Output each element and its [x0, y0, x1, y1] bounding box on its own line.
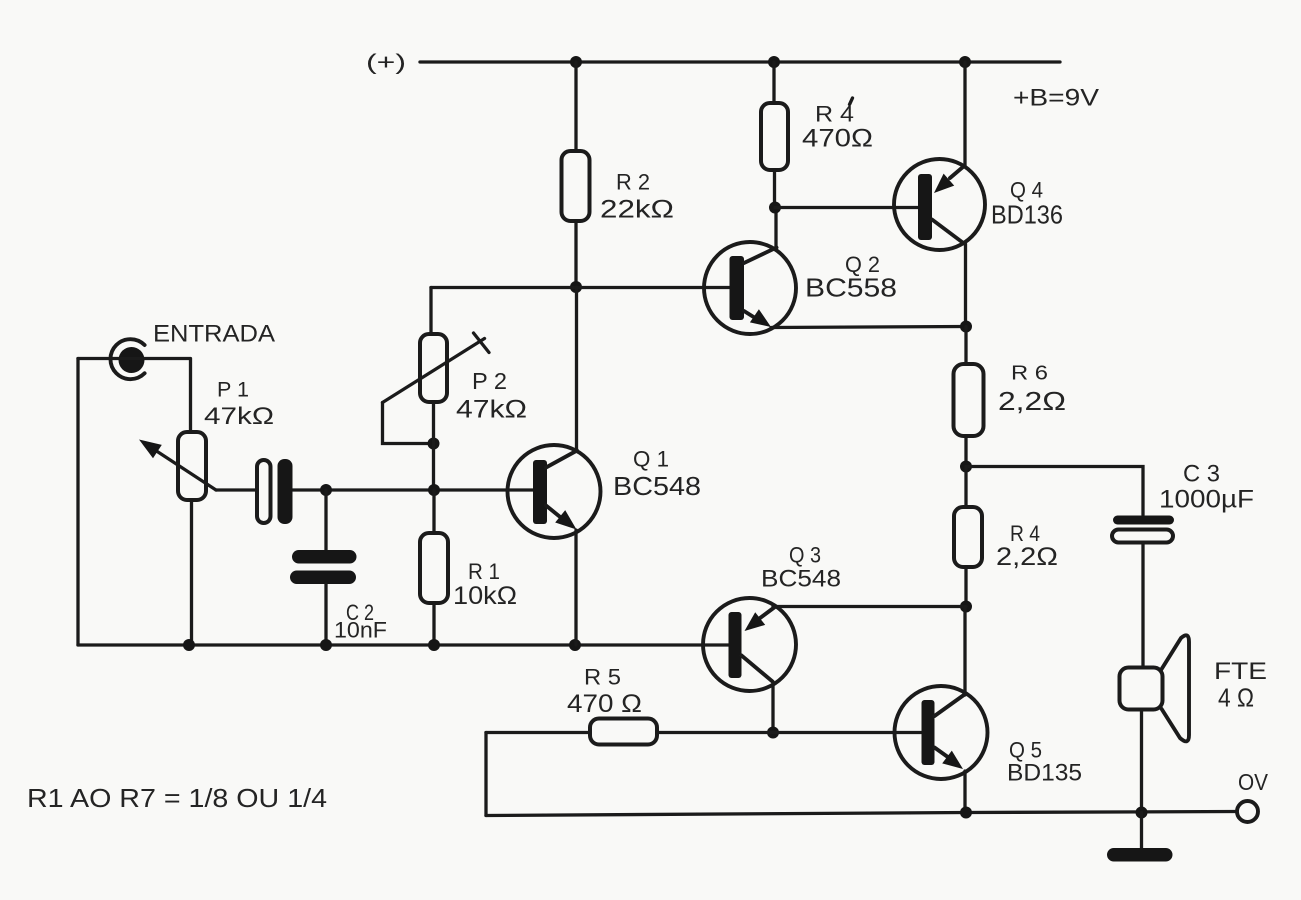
svg-text:10nF: 10nF — [334, 618, 387, 643]
wire P2 wiper return — [383, 403, 434, 444]
jack ENTRADA inner circle — [119, 347, 145, 373]
capacitor C1 right plate — [278, 459, 293, 524]
wire left vertical down — [76, 359, 79, 646]
wire Q4 collector down — [964, 244, 967, 327]
label P2 value — [456, 396, 527, 424]
potentiometer P1 body — [178, 432, 206, 500]
label R1 value — [453, 582, 517, 610]
wire Q1 collector vertical — [575, 287, 578, 451]
wire Q4 emitter to top rail — [963, 62, 966, 166]
label C3 ref — [1183, 461, 1220, 488]
resistor R5 — [590, 719, 657, 745]
capacitor C3 bottom plate — [1112, 530, 1173, 543]
label Q3 ref — [789, 543, 821, 568]
svg-text:(+): (+) — [366, 50, 406, 75]
node top rail / R2 — [570, 56, 582, 68]
wire top positive rail — [420, 60, 1060, 63]
svg-text:47kΩ: 47kΩ — [456, 396, 527, 424]
svg-text:22kΩ: 22kΩ — [600, 196, 674, 224]
label C3 value — [1159, 486, 1254, 514]
svg-text:P 1: P 1 — [217, 379, 249, 402]
svg-text:R 1: R 1 — [468, 559, 500, 584]
svg-text:BC558: BC558 — [805, 273, 897, 303]
wire R2 bottom lead to node — [574, 221, 577, 287]
label R1 ref — [468, 559, 500, 584]
node R2 / Q2 base wire / Q1 collector — [570, 281, 582, 293]
label (+) rail — [366, 50, 406, 75]
wire ground stub — [1140, 813, 1143, 849]
svg-text:4 Ω: 4 Ω — [1218, 683, 1254, 713]
resistor R4' — [761, 103, 788, 170]
label Q4 ref — [1010, 178, 1043, 203]
capacitor C2 bottom plate — [290, 571, 356, 585]
resistor R1 — [420, 533, 448, 603]
wire C3 to speaker — [1141, 543, 1144, 668]
wire corner down to P2 top — [429, 288, 432, 335]
wire Q2 base line — [431, 286, 731, 289]
label P1 value — [204, 403, 274, 430]
potentiometer P2 body — [420, 334, 447, 402]
wire P1 bottom lead — [190, 500, 193, 645]
label Q2 ref — [845, 252, 880, 277]
wire R4' bottom lead — [773, 170, 776, 208]
label FTE — [1214, 658, 1267, 685]
node P2 wiper / P2 bottom lead — [428, 438, 440, 450]
node top rail / Q4 emitter — [959, 56, 971, 68]
label Q2 type — [805, 273, 897, 303]
transistor Q5 — [895, 686, 988, 779]
node rail / R1 — [428, 639, 440, 651]
label P1 ref — [217, 379, 249, 402]
potentiometer P2 wiper diagonal — [383, 333, 490, 403]
potentiometer P1 wiper arrow — [139, 440, 216, 491]
svg-text:R 6: R 6 — [1011, 363, 1048, 385]
label ENTRADA — [153, 321, 275, 348]
svg-text:Q 1: Q 1 — [633, 447, 669, 472]
label +B=9V — [1013, 85, 1099, 112]
wire Q2 emitter line — [771, 327, 966, 328]
svg-text:470 Ω: 470 Ω — [567, 690, 642, 718]
node Q3 emitter / R5 wire — [767, 727, 779, 739]
svg-text:BC548: BC548 — [761, 566, 841, 593]
node R6 / R4 / C3 wire — [960, 461, 972, 473]
wire speaker bottom — [1140, 710, 1143, 813]
capacitor C1 left plate — [257, 460, 271, 523]
node Q2 emitter / R6 — [960, 321, 972, 333]
label P2 ref — [472, 368, 507, 394]
svg-text:1000µF: 1000µF — [1159, 486, 1254, 514]
svg-text:+B=9V: +B=9V — [1013, 85, 1099, 112]
svg-text:P 2: P 2 — [472, 368, 507, 394]
label R4' value — [802, 125, 873, 153]
transistor Q3 — [703, 598, 796, 691]
label R5 ref — [584, 665, 621, 690]
svg-text:470Ω: 470Ω — [802, 125, 873, 153]
node R4 / Q3 collector wire / Q5 collector — [960, 601, 972, 613]
label R4 ref — [1010, 521, 1040, 546]
wire node to C3 — [966, 467, 1143, 516]
transistor Q1 — [508, 445, 601, 645]
node rail / C2 — [320, 639, 332, 651]
label R4 value — [996, 543, 1058, 571]
node R4' / Q4 base / Q2 collector — [769, 202, 781, 214]
wire R1 bottom lead — [432, 603, 435, 645]
wire P2 bottom lead — [432, 402, 435, 490]
wire Q5 emitter to rail — [963, 771, 966, 813]
wire R5 left lead — [486, 731, 590, 734]
node signal / C2 — [320, 484, 332, 496]
wire R2 top lead — [574, 62, 577, 151]
wire R5 to Q5 base — [657, 731, 922, 734]
wire R6 bottom lead — [964, 436, 967, 467]
label Q1 ref — [633, 447, 669, 472]
label FTE value 4 ohm — [1218, 683, 1254, 713]
note R1 AO R7 — [27, 783, 327, 813]
label C2 ref — [346, 600, 374, 625]
svg-text:Q 3: Q 3 — [789, 543, 821, 568]
node rail / P1 — [183, 639, 195, 651]
node signal / R1 — [428, 484, 440, 496]
wire R4 bottom lead — [964, 567, 967, 607]
svg-text:OV: OV — [1238, 769, 1269, 795]
label R6 value — [998, 386, 1066, 416]
node rail / Q5 emitter — [960, 807, 972, 819]
wire mid ground rail — [78, 643, 729, 646]
label OV terminal — [1238, 769, 1269, 795]
speaker FTE cone — [1161, 635, 1189, 741]
node rail / Q1 emitter — [569, 639, 581, 651]
label Q5 type — [1007, 760, 1082, 787]
wire R6 top lead — [964, 327, 967, 365]
capacitor C2 top plate — [292, 550, 357, 564]
svg-text:10kΩ: 10kΩ — [453, 582, 517, 610]
node rail / speaker / ground — [1136, 807, 1148, 819]
wire left loop down — [484, 733, 487, 816]
label R6 ref — [1011, 363, 1048, 385]
label R5 value — [567, 690, 642, 718]
wire R1 top lead — [432, 490, 435, 533]
transistor Q4 — [894, 159, 985, 250]
label R2 value — [600, 196, 674, 224]
svg-text:2,2Ω: 2,2Ω — [998, 386, 1066, 416]
wire input signal line — [216, 488, 535, 491]
ground — [1107, 848, 1173, 862]
wire Q3 emitter down — [771, 682, 774, 733]
wire bottom 0V rail — [486, 812, 1237, 816]
wire Q2 collector to node — [774, 208, 777, 249]
svg-text:R 5: R 5 — [584, 665, 621, 690]
svg-text:R 2: R 2 — [616, 170, 650, 195]
svg-text:47kΩ: 47kΩ — [204, 403, 274, 430]
wire Q3 collector line — [773, 605, 966, 608]
label C2 value — [334, 618, 387, 643]
speaker FTE body — [1120, 668, 1163, 710]
terminal 0V — [1237, 801, 1258, 822]
jack ENTRADA outer ring — [110, 339, 144, 379]
wire R4 top lead — [964, 467, 967, 508]
label R4' ref — [815, 98, 854, 127]
wire Q4 base line — [775, 206, 919, 209]
wire jack to P1 top — [189, 359, 192, 433]
label Q3 type — [761, 566, 841, 593]
svg-text:R1 AO R7 = 1/8 OU 1/4: R1 AO R7 = 1/8 OU 1/4 — [27, 783, 327, 813]
wire C2 bottom lead — [324, 584, 327, 645]
svg-text:BD135: BD135 — [1007, 760, 1082, 787]
svg-text:C 3: C 3 — [1183, 461, 1220, 488]
svg-text:ENTRADA: ENTRADA — [153, 321, 275, 348]
wire R4' top lead — [772, 62, 775, 103]
wire jack horizontal — [78, 357, 190, 360]
svg-text:BC548: BC548 — [613, 471, 701, 501]
label Q5 ref — [1009, 738, 1042, 763]
capacitor C3 top plate — [1113, 516, 1174, 525]
wire C2 top lead — [324, 490, 327, 550]
svg-text:FTE: FTE — [1214, 658, 1267, 685]
svg-text:BD136: BD136 — [991, 200, 1063, 230]
resistor R2 — [562, 151, 590, 221]
label R2 ref — [616, 170, 650, 195]
svg-text:2,2Ω: 2,2Ω — [996, 543, 1058, 571]
wire Q5 collector vertical — [963, 607, 966, 696]
transistor Q2 — [704, 242, 796, 334]
resistor R6 — [954, 364, 984, 436]
resistor R4 — [954, 507, 982, 567]
label Q1 type — [613, 471, 701, 501]
node top rail / R4' — [768, 56, 780, 68]
label Q4 type — [991, 200, 1063, 230]
